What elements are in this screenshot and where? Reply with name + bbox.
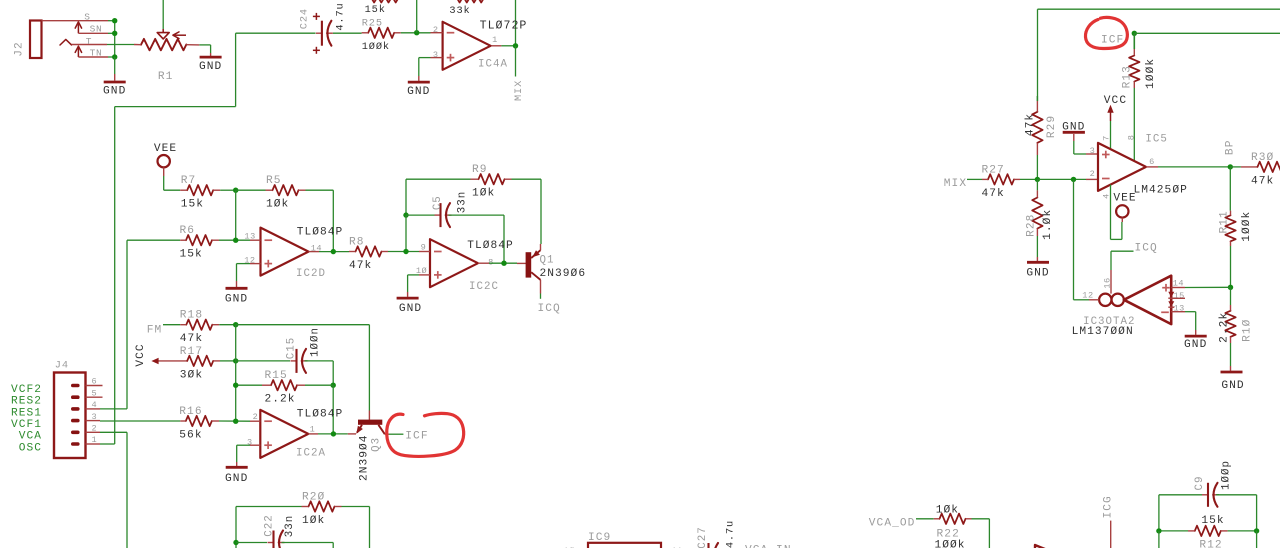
svg-text:3: 3 (247, 438, 253, 448)
svg-text:47k: 47k (349, 260, 372, 272)
svg-text:C15: C15 (285, 337, 297, 359)
svg-text:2: 2 (1090, 169, 1096, 179)
svg-text:4.7u: 4.7u (335, 2, 347, 30)
wire C5 right down to IC2C output (449, 215, 505, 263)
resistor R27 47k (982, 164, 1021, 200)
ground GND at R10 (1221, 366, 1245, 392)
op-amp IC2C TL084P (416, 239, 514, 293)
svg-text:R25: R25 (362, 18, 383, 30)
svg-text:R11: R11 (1218, 210, 1230, 233)
wire GND to IC5 pin 3 (1074, 141, 1098, 154)
svg-text:1Øk: 1Øk (266, 199, 289, 211)
svg-text:R1: R1 (158, 71, 174, 83)
svg-text:VCC: VCC (135, 343, 147, 366)
svg-text:TLØ84P: TLØ84P (297, 226, 344, 238)
wire ICF net to right edge (1134, 32, 1280, 34)
ground GND at IC2D (225, 281, 248, 306)
svg-text:56k: 56k (179, 429, 202, 441)
wire FM to R18 (163, 324, 180, 326)
resistor R6 15k (180, 225, 220, 261)
transistor Q1 2N3906 (517, 250, 586, 280)
node junction R27/R29/R28 (1035, 177, 1040, 182)
wire MIX to R27 (967, 178, 982, 180)
svg-text:R29: R29 (1046, 115, 1058, 138)
capacitor C24 4.7u polarized (299, 2, 347, 53)
wire R9 right leg down to Q1 emitter (512, 179, 542, 244)
wire junction down to pin 9 (405, 215, 407, 251)
wire Q1 emitter up (red pin) (540, 244, 542, 250)
wire IC4A output (491, 45, 515, 47)
svg-text:C27: C27 (697, 526, 709, 548)
capacitor C5 33n (432, 191, 468, 227)
wire J4 pin 2 down off-page (100, 432, 127, 548)
wire C9 right rail (1216, 495, 1257, 531)
op-amp IC3OTA2 LM13700N (OTA) (1072, 270, 1185, 338)
pin 4 of J4 (86, 400, 101, 410)
wire long vertical to J4 pin 1 (114, 107, 116, 444)
svg-text:12: 12 (1082, 291, 1093, 301)
svg-text:R6: R6 (180, 225, 196, 237)
svg-text:GND: GND (399, 303, 422, 315)
wire vertical junction column (235, 325, 237, 422)
svg-text:J2: J2 (13, 41, 25, 57)
wire R8 to IC2C pin 9 (388, 251, 419, 253)
ground GND at R28 (1026, 257, 1049, 280)
svg-text:4: 4 (92, 400, 98, 410)
wire R25 to IC4A pin 2 (401, 32, 431, 34)
wire R20 left rail down (235, 507, 237, 548)
svg-text:SN: SN (90, 23, 103, 34)
svg-text:GND: GND (199, 61, 222, 73)
resistor R20 10k (236, 491, 342, 527)
node junction R7/R5 (233, 188, 238, 193)
svg-text:ICQ: ICQ (538, 303, 561, 315)
svg-text:1ØØp: 1ØØp (1220, 460, 1232, 490)
svg-text:ICF: ICF (405, 430, 428, 442)
capacitor C9 100p (1194, 460, 1232, 507)
pin S of J2 (42, 11, 109, 22)
node junction R12 left (1156, 528, 1161, 533)
svg-text:47k: 47k (180, 333, 203, 345)
wire junction to IC5 pin 2 (1037, 178, 1098, 180)
svg-text:R5: R5 (266, 175, 282, 187)
wire TN net (108, 56, 115, 58)
svg-text:1Øk: 1Øk (472, 188, 495, 200)
svg-text:3: 3 (92, 412, 98, 422)
node junction C5 left (403, 212, 408, 217)
pin SN of J2 with switch arrow (75, 22, 108, 35)
pin T of J2 (tip contact) (60, 36, 107, 47)
svg-text:15k: 15k (180, 249, 203, 261)
wire IC2C output to Q1 base (478, 262, 517, 264)
svg-text:3: 3 (1090, 146, 1096, 156)
pin 3 pad of J4 (71, 419, 80, 423)
pin 5 pad of J4 (71, 395, 80, 399)
svg-text:1: 1 (492, 35, 498, 45)
op-amp IC9 (cut off at bottom) (563, 532, 682, 548)
svg-text:R12: R12 (1199, 539, 1222, 548)
wire IC2A output to Q3 emitter (308, 433, 356, 435)
svg-text:1Øk: 1Øk (936, 505, 959, 517)
svg-text:IC5: IC5 (1145, 133, 1167, 145)
wire R15 right to rail (305, 384, 333, 386)
svg-text:VCA_IN: VCA_IN (745, 545, 792, 548)
svg-text:47k: 47k (1251, 175, 1274, 187)
pin 6 stub of J4 (86, 377, 103, 387)
supply VCC arrow (left) (135, 343, 188, 366)
wire feedback rail down to IC2A output (332, 385, 334, 434)
resistor R17 30k (180, 346, 220, 382)
pin 15 stub of OTA (1171, 297, 1185, 299)
capacitor C27 4.7u (cut off) (697, 520, 737, 548)
svg-text:GND: GND (225, 473, 248, 485)
svg-text:GND: GND (407, 86, 430, 98)
pin 6 pad of J4 (71, 384, 80, 388)
wire R27 to junction (1020, 178, 1037, 180)
transistor Q3 2N3904 (356, 411, 389, 481)
svg-text:Q3: Q3 (371, 437, 383, 452)
svg-text:TLØ84P: TLØ84P (297, 409, 344, 421)
node junction IC5 pin 2 (1071, 177, 1076, 182)
svg-text:5: 5 (92, 388, 98, 398)
svg-text:6: 6 (1149, 157, 1155, 167)
svg-text:VCF1: VCF1 (11, 419, 42, 431)
wire feedback leg up (15k resistor above, cut off) (371, 0, 417, 33)
svg-text:4: 4 (1101, 193, 1111, 199)
wire Q3 collector to ICF (389, 433, 403, 435)
node junction C22 left (233, 540, 238, 545)
wire R17 to junction (220, 360, 236, 362)
resistor R5 10k (266, 175, 306, 211)
svg-text:GND: GND (103, 86, 126, 98)
connector J2 (audio jack) (13, 21, 41, 59)
connector J4 (54, 360, 86, 458)
wire J4 pin 1 to long vertical (100, 443, 115, 445)
svg-text:15k: 15k (181, 199, 204, 211)
svg-text:GND: GND (1221, 380, 1244, 392)
resistor R15 2.2k (262, 370, 305, 406)
svg-text:MIX: MIX (513, 80, 525, 101)
resistor R25 100k (362, 18, 401, 54)
wire R6 left from J4 pin 4 riser (127, 239, 180, 241)
resistor R18 47k (180, 310, 220, 346)
svg-text:C9: C9 (1194, 476, 1206, 491)
resistor R16 56k (179, 406, 219, 442)
wire IC5 pin 4 to VEE (1111, 185, 1122, 240)
svg-text:2.2k: 2.2k (265, 394, 296, 406)
ground GND at IC2A (225, 462, 248, 485)
wire R13 down to IC5 pin 8 (1133, 88, 1135, 161)
svg-text:9: 9 (421, 242, 427, 252)
svg-text:TLØ72P: TLØ72P (480, 19, 528, 32)
wire C22 right corner down (332, 543, 334, 548)
svg-text:VCF2: VCF2 (11, 384, 42, 396)
resistor R30 47k (cut off at right) (1230, 152, 1280, 188)
node junction R15 right (331, 383, 336, 388)
svg-text:RES1: RES1 (11, 407, 42, 419)
wire R20 right rail down (342, 507, 370, 548)
wire R5 right down to IC2D output (306, 190, 334, 251)
svg-text:Q1: Q1 (540, 255, 555, 267)
svg-text:R18: R18 (180, 310, 203, 322)
node junction IC2D output (331, 249, 336, 254)
svg-text:7: 7 (1101, 135, 1111, 141)
wire IC5 pin 2 net down to OTA pin 12 (1074, 179, 1090, 299)
svg-text:1ØØn: 1ØØn (309, 327, 321, 357)
pin 2 pad of J4 (71, 431, 80, 435)
pin 1 of J4 (86, 435, 101, 445)
annotation red circle around ICF (387, 413, 464, 456)
svg-text:15k: 15k (365, 4, 386, 16)
svg-text:OSC: OSC (19, 442, 42, 454)
node junction R6/R7/pin13 (233, 238, 238, 243)
svg-text:LM425ØP: LM425ØP (1134, 184, 1188, 196)
svg-text:VEE: VEE (154, 143, 177, 155)
wire ICQ to OTA pin 16 (1111, 251, 1134, 270)
ground GND at IC4A (407, 76, 430, 98)
pin 4 pad of J4 (71, 407, 80, 411)
wire C15 right down (332, 361, 334, 385)
svg-text:RES2: RES2 (11, 396, 42, 408)
svg-text:R9: R9 (472, 164, 488, 176)
op-amp IC5 LM4250P (1090, 133, 1188, 199)
wire IC2C pin 10 to ground (408, 275, 419, 292)
ground GND at R1 (199, 53, 222, 73)
svg-text:C5: C5 (432, 195, 444, 210)
node junction R15 left (233, 383, 238, 388)
wire R18 row to Q3 base riser (236, 325, 370, 411)
wire C24 to R25 (333, 32, 362, 34)
svg-text:R2Ø: R2Ø (302, 491, 325, 503)
svg-text:1: 1 (92, 435, 98, 445)
svg-text:2: 2 (253, 412, 259, 422)
wire R28 down to ground (1036, 236, 1038, 257)
supply VEE circle at IC5 (1113, 192, 1136, 222)
wire MIX net stub down (515, 46, 517, 77)
svg-text:LM137ØØN: LM137ØØN (1072, 326, 1134, 338)
node junction IC2C output (501, 261, 506, 266)
wire ICG pin down (cut off) (1110, 521, 1112, 548)
wire OTA pin 13 to ground (1171, 312, 1196, 330)
svg-text:R1Ø: R1Ø (1241, 319, 1253, 342)
svg-text:R28: R28 (1025, 214, 1037, 237)
svg-text:GND: GND (225, 294, 248, 306)
svg-text:2: 2 (433, 25, 439, 35)
node junction IC4A output (513, 43, 518, 48)
svg-text:R8: R8 (349, 236, 365, 248)
svg-text:ICG: ICG (1102, 495, 1114, 518)
wire R11 to junction (1230, 246, 1232, 287)
resistor R13 100k (1122, 33, 1157, 89)
svg-text:R15: R15 (265, 370, 288, 382)
node junction IC2A output (331, 431, 336, 436)
resistor R28 1.0k (1025, 179, 1054, 239)
svg-text:R13: R13 (1122, 65, 1134, 88)
svg-text:IC2D: IC2D (296, 268, 326, 280)
svg-text:VCA: VCA (19, 431, 42, 443)
op-amp IC2D TL084P (244, 226, 343, 280)
supply VCC arrow at IC5 pin 7 (1104, 95, 1127, 121)
wire SN net (108, 32, 115, 34)
potentiometer R1 (134, 32, 199, 83)
node junction S (112, 18, 117, 23)
svg-text:15k: 15k (1201, 515, 1224, 527)
resistor R22 10k (916, 505, 972, 548)
svg-text:VCC: VCC (1104, 95, 1127, 107)
resistor R9 10k (471, 164, 512, 200)
resistor R12 15k (1188, 515, 1228, 548)
node junction R16/pin2 (233, 419, 238, 424)
resistor R10 2.2k (1218, 287, 1253, 343)
svg-text:VCA_OD: VCA_OD (869, 518, 916, 530)
svg-text:1ØØk: 1ØØk (934, 540, 965, 548)
resistor R29 47k (1024, 96, 1058, 155)
ground GND at OTA pin 13 (1184, 330, 1207, 351)
wire R10 down to ground (1230, 343, 1232, 366)
wire input route to C24 (115, 33, 316, 106)
svg-text:2: 2 (92, 424, 98, 434)
node junction R11/R10/pin14 (1228, 285, 1233, 290)
wire R15 left (236, 384, 262, 386)
resistor R11 100k (1218, 167, 1253, 246)
wire R12 left (1159, 530, 1188, 532)
svg-text:33k: 33k (449, 5, 470, 17)
ground GND above IC5 pin 3 (1062, 121, 1085, 141)
wire R12 right (1228, 530, 1257, 532)
svg-text:47k: 47k (1024, 113, 1036, 136)
node junction TN (112, 54, 117, 59)
node junction SN (112, 31, 117, 36)
svg-text:FM: FM (147, 324, 163, 336)
wire IC2A pin 3 to ground (237, 445, 250, 462)
svg-text:R7: R7 (181, 175, 197, 187)
node junction R17/C15 (233, 358, 238, 363)
pin 2 of J4 (86, 424, 101, 434)
wire OTA pin 14 to junction (1171, 286, 1230, 288)
wire IC2D pin 12 to ground (237, 264, 251, 281)
svg-text:R17: R17 (180, 346, 203, 358)
op-amp IC4A TL072P (431, 19, 528, 70)
svg-text:C24: C24 (299, 8, 311, 29)
svg-text:2N39Ø6: 2N39Ø6 (540, 268, 587, 280)
svg-text:R27: R27 (982, 164, 1005, 176)
node junction ICF (1132, 31, 1137, 36)
svg-text:TLØ84P: TLØ84P (467, 240, 514, 252)
wire T net to R1 (107, 44, 134, 46)
svg-text:VEE: VEE (1113, 192, 1136, 204)
node junction R18 (233, 322, 238, 327)
svg-text:T: T (86, 36, 92, 47)
svg-text:16: 16 (1103, 277, 1113, 288)
wire VEE to R7 (164, 176, 181, 190)
svg-text:1ØØk: 1ØØk (1241, 211, 1253, 242)
svg-text:R3Ø: R3Ø (1251, 152, 1274, 164)
svg-text:IC2A: IC2A (296, 447, 326, 459)
pin 5 stub of J4 (86, 388, 103, 398)
svg-text:1ØØk: 1ØØk (362, 41, 390, 53)
wire junction vertical R7 to R6 (235, 190, 237, 240)
svg-text:3Øk: 3Øk (180, 369, 203, 381)
svg-text:GND: GND (1026, 268, 1049, 280)
svg-text:ICQ: ICQ (1135, 242, 1158, 254)
wire R29 to junction (1036, 155, 1038, 179)
wire R16 to IC2A pin 2 (219, 420, 250, 422)
op-amp triangle tip (cut off at bottom) (1035, 545, 1056, 548)
svg-text:33n: 33n (284, 515, 296, 537)
wire jack sleeve bus vertical (114, 21, 116, 57)
supply VEE circle (154, 143, 177, 176)
wire S net (108, 20, 115, 22)
svg-text:33n: 33n (456, 191, 468, 213)
wire C5 left (406, 214, 435, 216)
svg-text:15: 15 (1174, 291, 1185, 301)
capacitor C22 33n (236, 514, 333, 548)
op-amp IC2A TL084P (247, 409, 343, 460)
svg-text:BP: BP (1224, 140, 1236, 156)
node junction at IC4A pin 2 (414, 30, 419, 35)
svg-text:1: 1 (310, 424, 316, 434)
svg-text:R16: R16 (179, 406, 202, 418)
wire junction to R5 (236, 189, 266, 191)
wire wiper feed from top (162, 0, 164, 33)
svg-text:GND: GND (1184, 339, 1207, 351)
wire feedback leg up (33k resistor above, cut off) (456, 0, 516, 46)
wire C9 top rail (1159, 495, 1202, 531)
svg-text:MIX: MIX (944, 178, 967, 190)
resistor R8 47k (349, 236, 388, 272)
wire top net to right edge (1038, 9, 1280, 96)
svg-text:13: 13 (244, 231, 255, 241)
svg-text:J4: J4 (55, 360, 69, 372)
pin 3 of J4 (86, 412, 101, 422)
svg-text:IC4A: IC4A (478, 59, 508, 71)
wire IC5 output pin 6 (1146, 166, 1230, 168)
svg-text:3: 3 (433, 50, 439, 60)
svg-text:IC2C: IC2C (469, 281, 499, 293)
pin 1 pad of J4 (71, 442, 80, 446)
svg-text:1ØØk: 1ØØk (1145, 58, 1157, 89)
pin TN of J2 with switch arrow (75, 46, 108, 58)
svg-text:47k: 47k (982, 188, 1005, 200)
wire R1 right to ground (199, 45, 210, 53)
ground GND at jack (103, 57, 126, 98)
svg-text:8: 8 (1126, 135, 1136, 141)
svg-text:2.2k: 2.2k (1218, 312, 1230, 343)
wire R6 to IC2D pin 13 (219, 239, 250, 241)
node junction R12 right (1254, 528, 1259, 533)
annotation red circle around ICF right (1085, 17, 1127, 48)
wire IC2D output to R8 (309, 251, 350, 253)
svg-text:6: 6 (92, 377, 98, 387)
wire R9 left leg (406, 179, 471, 215)
wire J4 pin 4 up to R6 (100, 240, 127, 409)
wire R22 right down off-page (972, 519, 990, 548)
wire Q1 collector down to ICQ (540, 280, 542, 299)
wire R7 to junction (220, 189, 236, 191)
wire IC4A pin 3 to ground (419, 58, 431, 76)
wire R18 to junction (219, 324, 235, 326)
svg-text:1Øk: 1Øk (302, 515, 325, 527)
svg-text:2N39Ø4: 2N39Ø4 (358, 434, 370, 481)
svg-text:1.Øk: 1.Øk (1042, 209, 1054, 240)
svg-text:S: S (84, 11, 90, 22)
svg-text:4.7u: 4.7u (725, 520, 737, 548)
ground GND at IC2C (397, 292, 423, 315)
wire J4 pin 3 to R16 (100, 420, 180, 422)
svg-text:TN: TN (90, 48, 103, 59)
node junction BP (1228, 164, 1233, 169)
node junction R8/pin9 (403, 249, 408, 254)
